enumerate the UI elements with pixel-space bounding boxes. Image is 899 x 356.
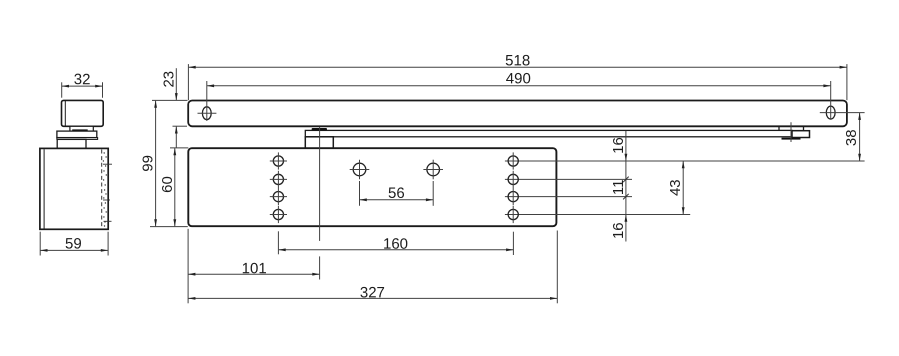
dimension 160 xyxy=(278,231,513,255)
svg-text:160: 160 xyxy=(383,236,408,253)
hole row lines xyxy=(505,161,865,215)
svg-text:59: 59 xyxy=(65,235,82,252)
side view: mount block xyxy=(57,139,86,148)
svg-text:101: 101 xyxy=(242,260,267,277)
side view: plate lip xyxy=(57,138,98,140)
mounting holes left column xyxy=(273,156,283,220)
svg-text:56: 56 xyxy=(388,185,405,202)
side view: plate xyxy=(57,131,97,138)
dimension 23 xyxy=(152,68,188,148)
svg-text:327: 327 xyxy=(360,284,385,301)
svg-text:11: 11 xyxy=(610,180,627,196)
dimension 11 xyxy=(610,161,629,215)
svg-text:16: 16 xyxy=(610,137,627,154)
svg-text:518: 518 xyxy=(505,52,530,69)
slider centerline xyxy=(790,122,792,142)
arm bar xyxy=(305,130,792,136)
dimension 518 xyxy=(188,52,847,100)
arm end pad xyxy=(782,138,801,140)
svg-text:60: 60 xyxy=(159,176,176,193)
dimension 59 xyxy=(40,232,108,256)
dimension 16 (top) xyxy=(610,131,627,161)
mounting holes right column xyxy=(508,156,518,220)
closer body xyxy=(188,148,556,226)
svg-text:23: 23 xyxy=(160,71,177,88)
svg-text:43: 43 xyxy=(667,179,684,196)
dimension 60 xyxy=(159,148,189,227)
side view: hidden dashed line xyxy=(101,150,103,229)
dimension 490 xyxy=(207,70,831,87)
side view: knurl speckles xyxy=(103,152,107,226)
svg-text:16: 16 xyxy=(610,222,627,239)
dimension 99 xyxy=(140,101,188,227)
middle holes pair xyxy=(350,160,443,180)
slide rail xyxy=(188,101,847,127)
svg-text:99: 99 xyxy=(140,155,157,172)
dimension 38 xyxy=(843,113,861,161)
dimension 56 xyxy=(360,181,434,206)
pivot centerline xyxy=(319,127,321,280)
side view: tick marks on right edge xyxy=(103,164,112,221)
side view: arm shoe neck xyxy=(70,126,93,131)
svg-text:490: 490 xyxy=(506,70,531,87)
pivot block xyxy=(305,137,333,148)
dimension 101 xyxy=(188,229,320,303)
dimension 32 xyxy=(62,71,103,98)
svg-text:32: 32 xyxy=(74,71,91,88)
arm slider block in rail xyxy=(779,127,804,131)
rail left oval hole xyxy=(198,81,217,121)
rail right oval hole xyxy=(820,81,865,120)
svg-text:38: 38 xyxy=(843,129,860,146)
dimension 16 (bottom) xyxy=(610,215,627,242)
side view: closer body xyxy=(40,148,108,229)
dimension 43 xyxy=(667,161,684,215)
arm end block xyxy=(792,131,810,138)
dimension 327 xyxy=(188,231,557,304)
pivot cap xyxy=(312,128,327,130)
side view: slide rail cross-section xyxy=(62,100,104,126)
